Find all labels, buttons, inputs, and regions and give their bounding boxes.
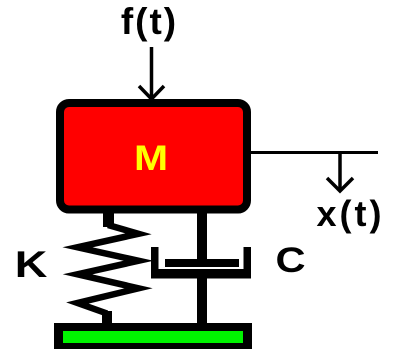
ground bar outline: [54, 323, 252, 349]
wire output line: [250, 151, 378, 154]
svg-text:x(t): x(t): [317, 193, 385, 234]
damper C cylinder left arm: [151, 247, 159, 279]
label C: [275, 241, 305, 280]
spring K zigzag: [78, 225, 139, 314]
damper C lower rod: [197, 278, 207, 326]
label K: [15, 244, 48, 285]
damper C piston plate: [165, 259, 239, 267]
label M: [134, 140, 168, 179]
force arrow shaft: [150, 47, 154, 97]
damper C cylinder right arm: [244, 247, 252, 279]
ground bar green fill: [63, 331, 243, 343]
spring K top stub: [103, 211, 114, 227]
displacement arrowhead: [327, 178, 353, 191]
displacement arrow shaft: [338, 153, 342, 192]
svg-text:f(t): f(t): [121, 1, 178, 42]
damper C cylinder bottom: [151, 269, 251, 279]
damper C piston rod upper: [197, 211, 207, 267]
svg-text:M: M: [134, 140, 168, 179]
svg-text:K: K: [15, 244, 48, 285]
spring K bottom stub: [102, 311, 112, 327]
svg-text:C: C: [275, 241, 305, 280]
force arrowhead: [139, 86, 164, 99]
mass M block: [60, 103, 247, 210]
